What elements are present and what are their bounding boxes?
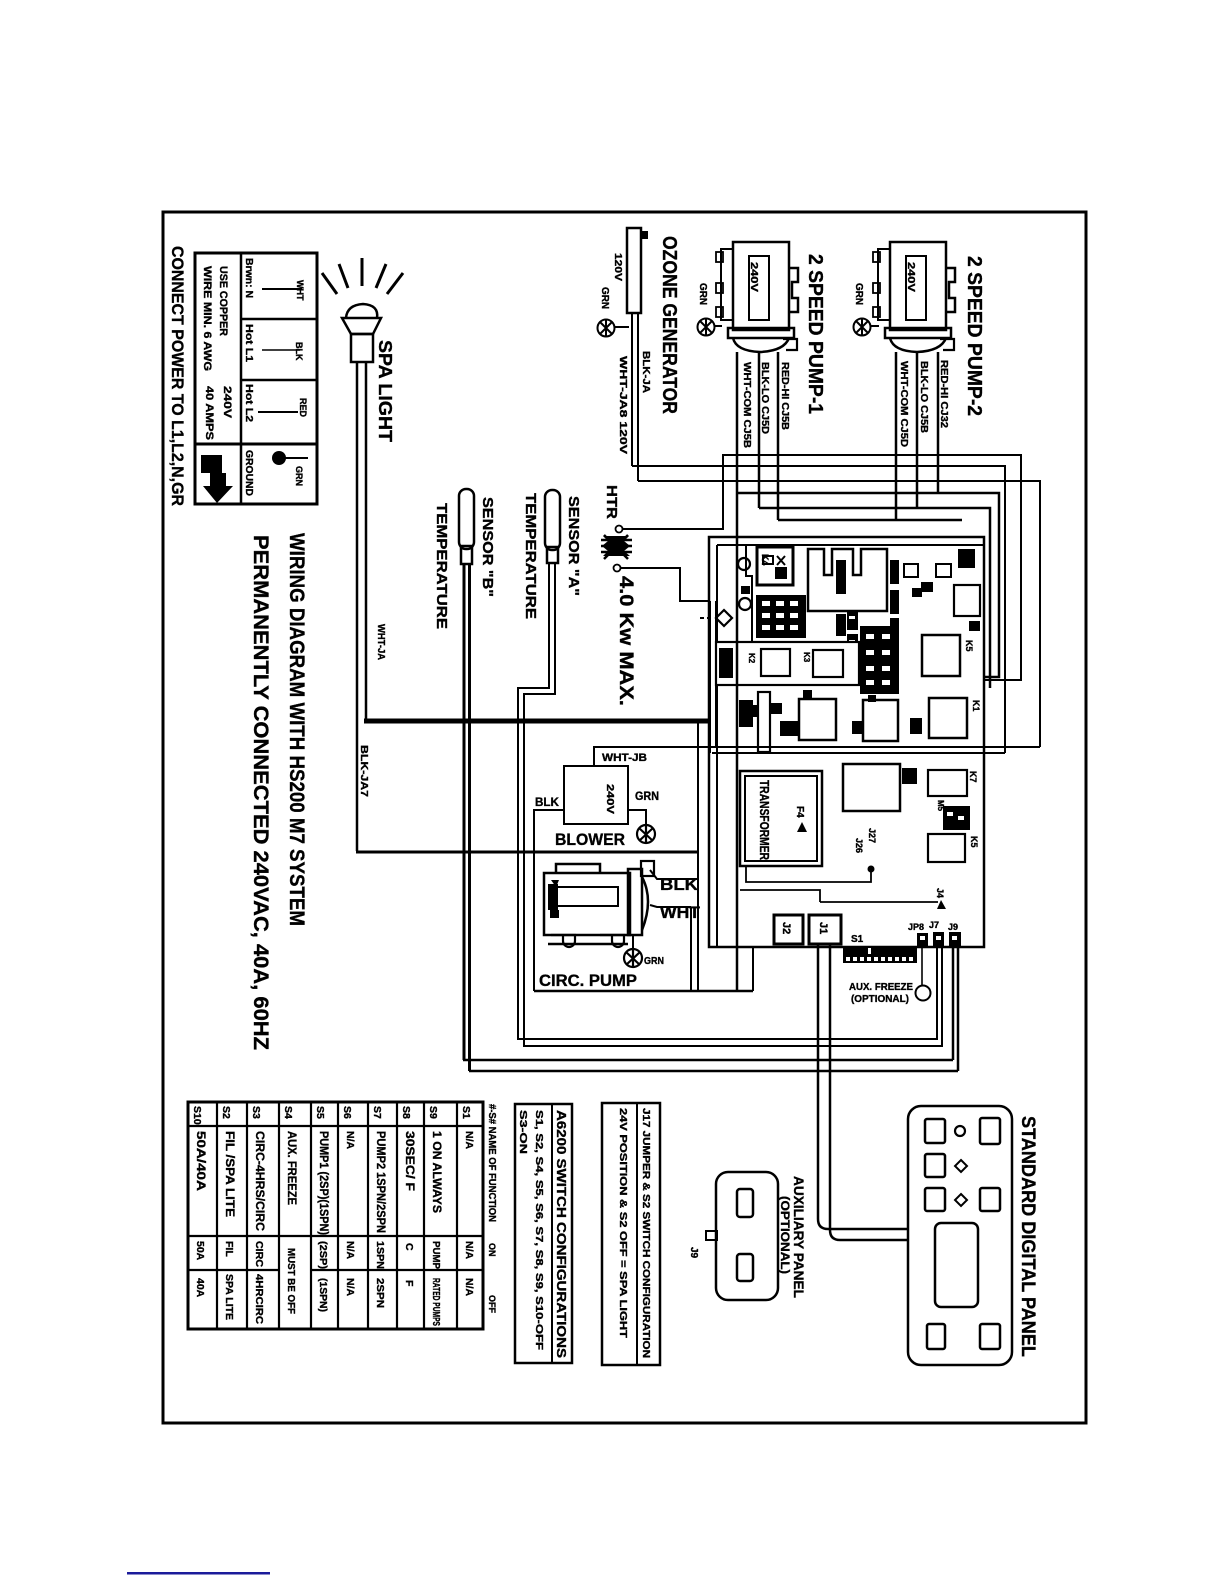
wire bus L2	[638, 481, 1040, 747]
ground symbol ozone	[598, 320, 630, 337]
svg-text:WHT-JA8 120V: WHT-JA8 120V	[617, 356, 628, 454]
table OFF cells	[194, 1248, 475, 1326]
standard digital panel	[908, 1106, 1012, 1365]
connector CJ2 pads	[847, 611, 858, 655]
wire pair to transformer H747	[594, 747, 1040, 766]
svg-text:JP8: JP8	[908, 922, 924, 932]
label J4	[740, 888, 946, 909]
svg-text:CONNECT POWER TO L1,L2,N,GR: CONNECT POWER TO L1,L2,N,GR	[168, 246, 187, 506]
ground symbol blower	[637, 825, 655, 843]
svg-text:WHT-COM CJ5B: WHT-COM CJ5B	[741, 362, 752, 448]
svg-text:WHT-COM CJ5D: WHT-COM CJ5D	[898, 361, 909, 447]
blower box	[564, 766, 628, 824]
heatsink	[808, 549, 887, 611]
wire J27 jumper	[746, 866, 875, 883]
svg-text:WHT: WHT	[660, 903, 701, 922]
table header column S labels	[191, 1106, 472, 1125]
table outside header	[486, 1104, 498, 1313]
dip switch S1	[843, 946, 917, 963]
svg-text:K1: K1	[971, 700, 981, 712]
svg-text:4.0 Kw MAX.: 4.0 Kw MAX.	[615, 576, 636, 706]
svg-text:40 AMPS: 40 AMPS	[203, 386, 215, 440]
svg-text:S6: S6	[341, 1106, 353, 1119]
ozone generator cell	[627, 228, 648, 313]
svg-text:FIL /SPA LITE: FIL /SPA LITE	[223, 1131, 237, 1217]
wire circ enclosure left	[533, 851, 535, 991]
svg-text:BLK-JA: BLK-JA	[640, 351, 651, 393]
wire bus L3	[737, 493, 999, 677]
svg-text:F: F	[403, 1280, 415, 1287]
svg-text:2 SPEED PUMP-1: 2 SPEED PUMP-1	[804, 254, 826, 414]
fuse F1	[739, 692, 782, 752]
svg-text:(1SPN): (1SPN)	[317, 1278, 329, 1312]
varistor K2 blob	[936, 800, 970, 830]
svg-text:RED-HI CJ5B: RED-HI CJ5B	[779, 362, 790, 430]
svg-text:FIL: FIL	[223, 1241, 235, 1257]
relay row 2 box B	[852, 700, 898, 741]
svg-text:GRN: GRN	[644, 956, 664, 967]
svg-text:WHT: WHT	[295, 280, 305, 301]
PCB diamond terminal	[700, 610, 732, 626]
svg-text:240V: 240V	[221, 386, 233, 419]
svg-text:S1, S2, S4, S5, S6, S7, S8, S9: S1, S2, S4, S5, S6, S7, S8, S9, S10-OFF	[533, 1110, 544, 1350]
svg-text:K3: K3	[802, 652, 811, 663]
svg-text:S3: S3	[250, 1106, 262, 1119]
wire spa WHT run	[356, 851, 698, 854]
footer blue rule	[127, 1572, 270, 1575]
wire blower BLK	[534, 810, 564, 851]
table function cells	[194, 1131, 475, 1235]
table ON cells	[194, 1241, 475, 1269]
svg-text:TEMPERATURE: TEMPERATURE	[433, 503, 450, 629]
svg-text:2SPN: 2SPN	[374, 1278, 386, 1308]
svg-text:Hot L1: Hot L1	[243, 324, 255, 362]
svg-text:CIRC-4HRS/CIRC: CIRC-4HRS/CIRC	[253, 1131, 267, 1231]
wire ozone pair	[631, 313, 633, 466]
module M box	[843, 764, 917, 811]
svg-text:BLK: BLK	[294, 342, 304, 361]
aux freeze option circle	[916, 986, 931, 1001]
svg-text:ON: ON	[487, 1243, 497, 1257]
svg-text:PUMP1 (2SP)(1SPN): PUMP1 (2SP)(1SPN)	[317, 1131, 331, 1235]
relay row 2 box C	[910, 698, 981, 738]
svg-text:K2: K2	[747, 653, 756, 664]
sensor A probe	[545, 490, 560, 563]
svg-text:J2: J2	[780, 922, 792, 934]
svg-text:N/A: N/A	[463, 1131, 475, 1150]
wire circ WHT	[650, 905, 691, 907]
label AUX. FREEZE (OPTIONAL)	[849, 982, 913, 1005]
wire bus L4	[759, 508, 990, 688]
ground symbol circ pump	[624, 949, 664, 967]
circ pump motor	[544, 861, 654, 947]
svg-text:J1: J1	[817, 922, 829, 934]
wire pair H753	[712, 752, 1005, 754]
svg-text:#-S# NAME OF FUNCTION: #-S# NAME OF FUNCTION	[486, 1104, 498, 1222]
svg-text:GRN: GRN	[853, 283, 864, 305]
svg-text:USE COPPER: USE COPPER	[217, 266, 229, 336]
svg-text:BLK: BLK	[660, 875, 699, 894]
svg-text:2 SPEED PUMP-2: 2 SPEED PUMP-2	[963, 256, 985, 416]
svg-text:PUMP: PUMP	[430, 1241, 442, 1269]
svg-text:BLK-LO CJ5D: BLK-LO CJ5D	[759, 362, 770, 434]
wire relay feed	[746, 545, 752, 642]
spa light lamp	[322, 258, 403, 362]
svg-text:1 ON ALWAYS: 1 ON ALWAYS	[430, 1131, 444, 1213]
svg-text:CIRC: CIRC	[253, 1241, 265, 1267]
connector J1	[809, 915, 841, 944]
auxiliary panel connector	[706, 1172, 778, 1300]
svg-text:STANDARD DIGITAL PANEL: STANDARD DIGITAL PANEL	[1017, 1116, 1038, 1357]
svg-text:24V POSITION & S2 OFF = SPA LI: 24V POSITION & S2 OFF = SPA LIGHT	[617, 1108, 628, 1338]
relay K6	[928, 834, 979, 862]
svg-text:HTR: HTR	[603, 485, 620, 519]
svg-text:GRN: GRN	[294, 466, 304, 486]
svg-text:TRANSFORMER: TRANSFORMER	[757, 780, 772, 860]
svg-text:(OPTIONAL): (OPTIONAL)	[851, 994, 909, 1005]
svg-text:RED: RED	[298, 398, 308, 418]
svg-text:RATED PUMPS: RATED PUMPS	[430, 1278, 442, 1326]
svg-text:240V: 240V	[905, 262, 916, 292]
svg-text:BLOWER: BLOWER	[555, 830, 625, 849]
svg-text:MUST BE OFF: MUST BE OFF	[285, 1248, 297, 1315]
svg-text:J26: J26	[854, 838, 864, 853]
wire JP8 to aux freeze	[921, 946, 923, 986]
main PCB board outline	[709, 537, 984, 947]
svg-text:30SEC/ F: 30SEC/ F	[403, 1131, 417, 1191]
connector J2	[774, 915, 803, 944]
misc PCB specks	[719, 560, 922, 702]
fuse label F4	[794, 806, 807, 832]
svg-text:N/A: N/A	[463, 1278, 475, 1297]
svg-text:GROUND: GROUND	[243, 450, 255, 496]
svg-text:S4: S4	[282, 1106, 294, 1119]
svg-text:A6200 SWITCH CONFIGURATIONS: A6200 SWITCH CONFIGURATIONS	[554, 1110, 568, 1358]
svg-text:120V: 120V	[612, 253, 623, 281]
svg-text:1SPN: 1SPN	[374, 1241, 386, 1269]
svg-text:N/A: N/A	[463, 1241, 475, 1260]
svg-text:TEMPERATURE: TEMPERATURE	[522, 493, 539, 619]
wire bus L1	[632, 466, 1005, 753]
svg-text:J9: J9	[688, 1247, 699, 1259]
svg-text:BLK-JA7: BLK-JA7	[358, 745, 369, 798]
wire circ enclosure bottom	[534, 990, 753, 993]
svg-text:BLK-LO CJ5B: BLK-LO CJ5B	[918, 361, 929, 433]
PCB terminal circle 2	[739, 598, 751, 610]
border frame	[163, 212, 1086, 1423]
sensor B probe	[459, 489, 474, 564]
svg-text:Hot L2: Hot L2	[243, 384, 255, 422]
svg-text:K7: K7	[968, 771, 978, 783]
relay K7	[928, 770, 978, 796]
svg-text:F4: F4	[794, 806, 805, 818]
svg-text:S10: S10	[191, 1106, 203, 1125]
labels JP8 J7 J9	[908, 920, 958, 932]
config box J17 jumper	[602, 1103, 660, 1365]
svg-text:4HRCIRC: 4HRCIRC	[253, 1274, 265, 1324]
svg-text:WHT-JB: WHT-JB	[602, 752, 647, 764]
wire heater top	[623, 455, 723, 529]
motor 2 speed pump-2	[873, 242, 955, 352]
wire pump2 leads	[896, 352, 938, 520]
svg-text:(OPTIONAL): (OPTIONAL)	[778, 1196, 792, 1274]
hookup arrow	[201, 455, 233, 503]
svg-text:AUX. FREEZE: AUX. FREEZE	[285, 1131, 299, 1205]
wire bus L5	[778, 519, 962, 522]
svg-text:S1: S1	[851, 934, 864, 945]
relay row 2 box A	[780, 699, 836, 740]
wire pump1 common lead across board	[736, 537, 739, 990]
relay row box	[716, 642, 859, 685]
svg-text:J4: J4	[935, 888, 945, 898]
svg-text:J17 JUMPER & S2 SWITCH CONFIGU: J17 JUMPER & S2 SWITCH CONFIGURATION	[640, 1108, 651, 1358]
svg-text:50A: 50A	[194, 1241, 206, 1261]
connector CJ1 block	[756, 595, 806, 638]
svg-text:S1: S1	[460, 1106, 472, 1119]
PCB terminal circle 1	[738, 558, 750, 570]
svg-text:N/A: N/A	[344, 1131, 356, 1150]
svg-text:GRN: GRN	[599, 287, 610, 309]
svg-text:J27: J27	[867, 828, 877, 843]
svg-text:M5: M5	[936, 800, 945, 812]
dip switch table	[188, 1102, 483, 1329]
wire spa light stem	[356, 362, 359, 851]
transformer box	[740, 771, 822, 866]
wire circ BLK	[650, 870, 698, 879]
svg-text:WHT-JA: WHT-JA	[375, 624, 386, 660]
svg-text:GRN: GRN	[697, 283, 708, 305]
svg-text:N/A: N/A	[344, 1241, 356, 1260]
wire sensor B pair	[463, 564, 466, 1060]
svg-text:GRN: GRN	[635, 789, 659, 803]
wire blower GRN	[628, 810, 646, 824]
ground symbol pump2	[854, 319, 880, 336]
svg-text:AUXILIARY PANEL: AUXILIARY PANEL	[791, 1176, 807, 1298]
wire circ enclosure right legs	[691, 722, 698, 991]
relay K4	[757, 547, 793, 585]
svg-text:S5: S5	[314, 1106, 326, 1119]
svg-text:OZONE GENERATOR: OZONE GENERATOR	[658, 236, 680, 414]
svg-text:C: C	[403, 1243, 415, 1251]
svg-text:J9: J9	[948, 922, 958, 932]
svg-text:PUMP2 1SPN/2SPN: PUMP2 1SPN/2SPN	[374, 1131, 388, 1233]
terminal block table TB1	[195, 253, 317, 504]
svg-text:S9: S9	[427, 1106, 439, 1119]
svg-text:S7: S7	[371, 1106, 383, 1119]
svg-text:K5: K5	[964, 640, 974, 652]
svg-text:240V: 240V	[604, 784, 615, 814]
svg-text:(2SP): (2SP)	[317, 1241, 329, 1269]
PCB inner edge lines	[717, 545, 984, 947]
relay K5	[922, 635, 974, 676]
svg-text:AUX. FREEZE: AUX. FREEZE	[849, 982, 913, 993]
svg-text:N/A: N/A	[344, 1278, 356, 1297]
svg-text:S3-ON: S3-ON	[517, 1110, 528, 1154]
svg-text:BLK: BLK	[535, 795, 559, 809]
heater element coil	[601, 526, 632, 572]
wire J1 cable to digital panel	[818, 944, 908, 1240]
svg-text:Brwn: N: Brwn: N	[243, 258, 255, 298]
svg-text:PERMANENTLY CONNECTED 240VAC,: PERMANENTLY CONNECTED 240VAC, 40A, 60HZ	[249, 535, 272, 1050]
misc top connector blobs	[890, 549, 980, 640]
wire pump1 leads	[737, 352, 778, 537]
ground symbol pump1	[698, 319, 723, 336]
wire heater bottom	[621, 568, 716, 601]
svg-text:SPA LIGHT: SPA LIGHT	[375, 340, 395, 442]
svg-text:S8: S8	[400, 1106, 412, 1119]
wire sensor A pair	[518, 562, 942, 1046]
wire circ GRN drop	[632, 935, 634, 950]
svg-text:50A/40A: 50A/40A	[194, 1131, 208, 1191]
config box A6200	[515, 1104, 572, 1363]
connector CJ3 block	[860, 626, 899, 694]
wire bus L0	[722, 455, 1021, 680]
wire vertical pair heater-blower	[710, 601, 716, 753]
svg-text:RED-HI CJ32: RED-HI CJ32	[938, 360, 949, 428]
svg-text:K4: K4	[760, 554, 770, 566]
wire spa BLK bus	[364, 719, 739, 724]
motor 2 speed pump-1	[716, 242, 798, 352]
svg-text:S2: S2	[220, 1106, 232, 1119]
svg-text:J7: J7	[929, 920, 939, 930]
svg-text:CIRC. PUMP: CIRC. PUMP	[539, 971, 637, 990]
svg-text:40A: 40A	[194, 1278, 206, 1298]
svg-text:K5: K5	[969, 836, 979, 848]
svg-text:240V: 240V	[748, 262, 759, 292]
svg-text:WIRE MIN. 6 AWG: WIRE MIN. 6 AWG	[201, 266, 213, 371]
svg-text:SPA LITE: SPA LITE	[223, 1274, 235, 1320]
svg-text:WIRING DIAGRAM WITH HS200 M7 S: WIRING DIAGRAM WITH HS200 M7 SYSTEM	[285, 533, 308, 926]
svg-text:SENSOR "B": SENSOR "B"	[479, 497, 496, 597]
svg-text:SENSOR "A": SENSOR "A"	[565, 496, 582, 596]
pads JP8 J7 J9	[917, 932, 961, 946]
svg-text:OFF: OFF	[487, 1295, 497, 1313]
